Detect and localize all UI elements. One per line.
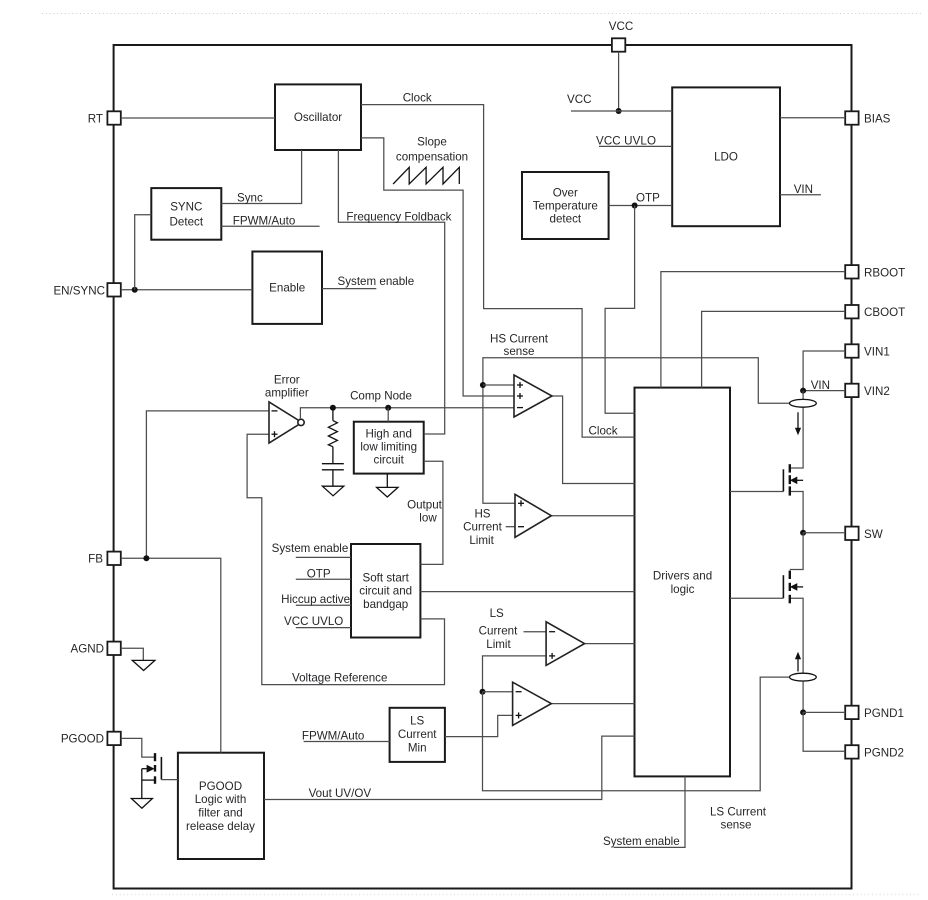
svg-text:Clock: Clock	[589, 424, 618, 437]
svg-text:filter and: filter and	[198, 807, 242, 820]
svg-text:VIN1: VIN1	[864, 346, 890, 359]
svg-text:logic: logic	[671, 583, 695, 596]
svg-text:OTP: OTP	[636, 192, 660, 205]
svg-text:AGND: AGND	[71, 643, 105, 656]
svg-text:Limit: Limit	[469, 534, 494, 547]
comparator HS current limit	[515, 494, 551, 537]
block LDO	[672, 87, 780, 226]
block Over Temperature detect	[522, 172, 609, 239]
wire VIN2 to rail	[803, 379, 845, 392]
wire RT to Oscillator	[121, 117, 275, 119]
wire LS Current Limit minus stub	[479, 607, 546, 651]
svg-text:bandgap: bandgap	[363, 598, 408, 611]
node OTP junction	[632, 203, 638, 209]
block SYNC Detect	[151, 188, 221, 240]
op-amp error amplifier	[265, 373, 309, 443]
wire OTP from Over Temperature detect to LDO	[609, 192, 673, 206]
svg-text:Comp Node: Comp Node	[350, 390, 412, 403]
svg-text:OTP: OTP	[307, 567, 331, 580]
svg-text:Voltage Reference: Voltage Reference	[292, 672, 387, 685]
wire VIN junction to HS sense element	[802, 391, 804, 400]
node FB junction	[143, 555, 149, 561]
svg-text:Oscillator: Oscillator	[294, 111, 342, 124]
wire VCC UVLO into LDO	[596, 135, 672, 148]
svg-text:LS Current: LS Current	[710, 806, 767, 819]
wire HS sense element to HS FET drain	[790, 407, 803, 468]
svg-text:Slope: Slope	[417, 135, 447, 148]
comparator LS current sense	[513, 682, 552, 725]
svg-text:Clock: Clock	[403, 91, 432, 104]
svg-text:RT: RT	[88, 113, 103, 126]
svg-text:Current: Current	[463, 520, 502, 533]
block Oscillator	[275, 84, 361, 150]
svg-text:BIAS: BIAS	[864, 113, 891, 126]
wire SW junction to pin	[803, 532, 845, 534]
node comp RC tap	[330, 405, 336, 411]
wire PGOOD pin to pull-down FET drain	[121, 738, 155, 757]
pin RBOOT	[845, 265, 905, 279]
wire OTP stub into soft start	[296, 567, 351, 580]
wire CBOOT to Drivers and logic	[702, 311, 846, 387]
svg-text:FPWM/Auto: FPWM/Auto	[302, 730, 365, 743]
svg-text:amplifier: amplifier	[265, 387, 309, 400]
wire VIN1 to switch node rail	[803, 351, 845, 391]
svg-text:LDO: LDO	[714, 151, 738, 164]
wire LS current sense return from sense element	[483, 677, 790, 831]
block Enable	[252, 252, 322, 324]
wire LS limit plus / LS sense minus joint feed	[483, 656, 547, 692]
transistor HS power FET	[783, 464, 803, 495]
wire System enable from Drivers bottom	[603, 776, 685, 847]
svg-text:VIN: VIN	[794, 183, 813, 196]
ground (comp RC)	[322, 486, 343, 496]
wire Frequency Foldback from Oscillator to High and low limiting circuit	[338, 150, 451, 434]
svg-text:System enable: System enable	[272, 542, 349, 555]
svg-text:compensation: compensation	[396, 150, 468, 163]
svg-text:VCC: VCC	[567, 93, 591, 106]
pin SW	[845, 527, 883, 541]
wire OTP down and into Drivers and logic	[605, 206, 635, 414]
wire HS current sense comparator output to Drivers	[552, 396, 635, 484]
wire System enable stub into soft start	[272, 542, 351, 557]
wire VCC UVLO stub into soft start	[284, 615, 351, 628]
wire System enable stub from Enable	[322, 275, 414, 289]
wire VCC rail into LDO	[567, 93, 672, 111]
wire LS Current Limit output to Drivers	[585, 643, 635, 645]
block High and low limiting circuit	[354, 422, 424, 474]
wire FB to PGOOD logic	[121, 558, 221, 752]
svg-text:VCC UVLO: VCC UVLO	[596, 135, 656, 148]
wire LS current sense comparator output to Drivers	[551, 703, 634, 705]
svg-text:Current: Current	[479, 625, 518, 638]
svg-text:Logic with: Logic with	[195, 793, 247, 806]
svg-text:low: low	[419, 511, 437, 524]
svg-text:LS: LS	[490, 607, 504, 620]
capacitor to ground	[322, 464, 344, 487]
wire PGND junction to PGND2 pin	[803, 712, 845, 751]
block PGOOD Logic with filter and release delay	[178, 753, 264, 859]
wire RBOOT to Drivers and logic	[661, 272, 845, 388]
wire LS sense element to PGND junction	[802, 681, 804, 712]
pin FB	[88, 552, 121, 566]
wire LS Current Min output to LS sense comparator plus	[445, 715, 513, 736]
wire LS FET source to LS sense element	[790, 598, 803, 673]
svg-text:VCC UVLO: VCC UVLO	[284, 615, 343, 628]
pin VIN1	[845, 344, 890, 358]
wire LDO BIAS output	[780, 117, 845, 119]
block LS Current Min	[390, 708, 445, 762]
svg-text:Output: Output	[407, 498, 443, 511]
pin PGOOD	[61, 732, 121, 746]
ground (AGND)	[132, 660, 155, 670]
wire HS Current Limit minus stub	[463, 507, 515, 547]
wire FPWM/Auto stub from SYNC Detect	[221, 214, 319, 227]
pin PGND1	[845, 706, 904, 720]
svg-text:VIN: VIN	[811, 379, 830, 392]
wire LS junction to minus input	[483, 691, 513, 693]
svg-text:VCC: VCC	[609, 20, 633, 33]
svg-text:Over: Over	[553, 187, 578, 200]
svg-text:PGND2: PGND2	[864, 746, 904, 759]
svg-text:sense: sense	[504, 345, 535, 358]
wire Slope compensation from Oscillator to HS current sense comparator	[361, 135, 514, 396]
svg-text:CBOOT: CBOOT	[864, 306, 905, 319]
svg-text:VIN2: VIN2	[864, 385, 890, 398]
svg-text:FPWM/Auto: FPWM/Auto	[233, 214, 295, 227]
wire Output low from limiting circuit to soft start	[407, 461, 443, 564]
svg-text:Sync: Sync	[237, 192, 263, 205]
node SW junction	[800, 530, 806, 536]
svg-text:HS: HS	[474, 507, 490, 520]
pin PGND2	[845, 745, 904, 759]
svg-text:RBOOT: RBOOT	[864, 266, 905, 279]
LS current direction arrow	[795, 652, 801, 672]
wire LS gate from Drivers	[730, 597, 783, 599]
wire voltage reference loop to error amplifier non-inverting input	[247, 434, 444, 685]
node VCC rail junction	[616, 108, 622, 114]
svg-text:High and: High and	[365, 428, 411, 441]
pin VCC (top)	[609, 20, 633, 52]
svg-text:System enable: System enable	[603, 835, 680, 848]
svg-text:PGOOD: PGOOD	[61, 733, 104, 746]
pin VIN2	[845, 384, 890, 398]
pin EN/SYNC	[53, 283, 120, 297]
svg-text:Hiccup active: Hiccup active	[281, 593, 350, 606]
svg-text:low limiting: low limiting	[360, 441, 417, 454]
svg-text:circuit: circuit	[374, 454, 405, 467]
svg-text:SYNC: SYNC	[170, 200, 202, 213]
wire error amplifier inverting input from FB	[146, 411, 269, 558]
svg-text:PGOOD: PGOOD	[199, 780, 242, 793]
node HS current sense tap	[480, 382, 486, 388]
svg-text:HS Current: HS Current	[490, 332, 549, 345]
node LS sense junction	[480, 689, 486, 695]
svg-text:SW: SW	[864, 528, 883, 541]
HS current direction arrow	[795, 412, 801, 435]
wire VCC pin down to VCC rail	[618, 52, 620, 111]
svg-text:release delay: release delay	[186, 820, 255, 833]
pin AGND	[71, 642, 121, 656]
svg-text:Limit: Limit	[486, 638, 511, 651]
node comp limiting-circuit tap	[385, 405, 391, 411]
svg-text:Enable: Enable	[269, 282, 305, 295]
wire EN/SYNC to Enable	[121, 289, 253, 291]
svg-text:PGND1: PGND1	[864, 707, 904, 720]
node PGND junction	[800, 709, 806, 715]
svg-text:Error: Error	[274, 373, 300, 386]
wire Hiccup active stub into soft start	[281, 593, 351, 606]
wire LDO VIN stub	[780, 183, 821, 196]
wire AGND pin to ground	[121, 648, 144, 660]
comparator HS current sense	[514, 375, 552, 417]
block Drivers and logic	[635, 388, 731, 777]
wire HS sense to first + input	[483, 384, 514, 386]
svg-text:Soft start: Soft start	[362, 571, 409, 584]
svg-text:Frequency Foldback: Frequency Foldback	[346, 210, 451, 223]
wire Clock from Oscillator to Drivers and logic	[361, 91, 635, 437]
wire error amplifier output Comp Node	[300, 390, 514, 419]
wire PGND junction to PGND1 pin	[803, 711, 845, 713]
wire FPWM/Auto stub into LS Current Min	[302, 730, 390, 743]
svg-text:Current: Current	[398, 728, 437, 741]
wire HS Current sense from VIN sense element to comparators	[483, 332, 790, 503]
wire soft start bandgap output to Drivers and logic	[420, 591, 634, 593]
wire EN/SYNC up to SYNC Detect	[135, 215, 152, 290]
wire Vout UV/OV from PGOOD logic to Drivers	[264, 736, 635, 800]
sawtooth slope-compensation waveform	[393, 167, 459, 184]
HS current sense element (ellipse)	[790, 399, 817, 407]
wire SW junction to LS FET drain	[790, 533, 803, 570]
wire HS FET source to SW	[790, 492, 803, 533]
bottom dotted rule	[112, 894, 921, 896]
node EN/SYNC junction	[132, 287, 138, 293]
node VIN junction	[800, 388, 806, 394]
pin CBOOT	[845, 305, 905, 319]
svg-text:circuit and: circuit and	[359, 584, 412, 597]
svg-text:LS: LS	[410, 714, 424, 727]
IC boundary box	[114, 45, 852, 889]
svg-text:Vout UV/OV: Vout UV/OV	[309, 787, 372, 800]
svg-text:sense: sense	[721, 819, 752, 832]
pin RT	[88, 111, 121, 125]
svg-text:Min: Min	[408, 742, 427, 755]
svg-text:Temperature: Temperature	[533, 200, 598, 213]
svg-text:FB: FB	[88, 553, 103, 566]
svg-text:detect: detect	[550, 213, 582, 226]
ground (PGOOD FET source)	[131, 799, 152, 809]
svg-text:EN/SYNC: EN/SYNC	[53, 285, 105, 298]
wire comp node down into High and low limiting circuit	[387, 408, 389, 422]
wire HS Current Limit comparator output to Drivers	[551, 515, 634, 517]
ground (limiting circuit)	[377, 474, 398, 497]
svg-text:Detect: Detect	[170, 215, 204, 228]
block Soft start circuit and bandgap	[351, 544, 420, 638]
transistor PGOOD open-drain FET	[142, 753, 178, 798]
top dotted rule	[42, 13, 921, 15]
LS current sense element (ellipse)	[790, 673, 817, 681]
transistor LS power FET	[783, 571, 803, 604]
svg-text:Drivers and: Drivers and	[653, 569, 712, 582]
wire Sync from SYNC Detect to Oscillator	[221, 150, 301, 205]
resistor on comp node	[328, 408, 337, 464]
comparator LS current limit	[546, 622, 584, 666]
svg-text:System enable: System enable	[338, 275, 415, 288]
wire HS gate from Drivers	[730, 491, 783, 493]
pin BIAS	[845, 111, 890, 125]
